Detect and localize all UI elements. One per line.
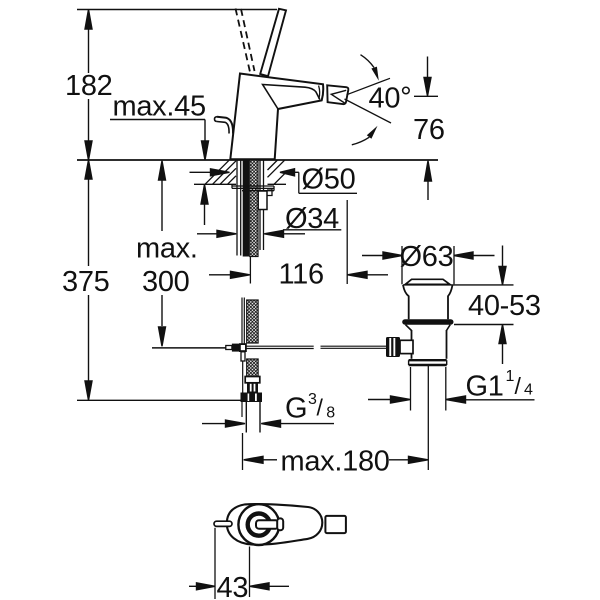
tailpipe extension lines: [410, 367, 412, 411]
svg-text:40-53: 40-53: [468, 290, 541, 322]
svg-text:1: 1: [506, 368, 515, 385]
aerator chevron: [331, 90, 346, 103]
supply hose upper section: [242, 298, 258, 344]
dimension line 182/375: [85, 10, 92, 401]
washer plates under counter: [232, 184, 274, 190]
dimension max.180: [243, 433, 429, 470]
handle tip cap: [325, 516, 346, 533]
svg-text:Ø34: Ø34: [285, 203, 339, 235]
taper below seal: [406, 325, 451, 331]
faucet body: [230, 74, 323, 160]
dimension D34: [197, 230, 341, 238]
svg-text:max.180: max.180: [281, 446, 390, 478]
mounting nut: [258, 191, 267, 210]
svg-text:375: 375: [62, 266, 110, 298]
dimension 76: [414, 57, 438, 201]
handle center bar: [256, 520, 279, 529]
svg-text:300: 300: [142, 266, 190, 298]
G3/8 threaded end: [245, 402, 247, 433]
flange top line with 40-53 upper reference: [403, 284, 514, 286]
svg-text:max.45: max.45: [113, 91, 206, 123]
svg-text:8: 8: [326, 405, 335, 422]
aerator tip: [327, 85, 348, 104]
hose collar: [245, 377, 260, 383]
hose-end reference line (375 bottom): [77, 399, 241, 401]
knurled knob: [386, 337, 400, 357]
svg-text:43: 43: [217, 572, 249, 600]
pop-up rod below body (black): [243, 160, 249, 257]
mounting surface line: [77, 159, 438, 161]
handle front view body: [227, 504, 322, 545]
joystick lever solid: [260, 9, 286, 76]
dimension max.300: [159, 161, 166, 346]
waste body: [411, 330, 413, 359]
spout end face inner line: [319, 86, 320, 99]
shank tube outer lines: [237, 160, 264, 256]
svg-text:Ø50: Ø50: [302, 164, 356, 196]
svg-text:116: 116: [279, 259, 324, 291]
dimension 43: [189, 528, 289, 599]
hose ribbed section: [247, 383, 258, 393]
waste flange: [403, 285, 453, 319]
svg-text:40°: 40°: [369, 82, 412, 115]
spout inner lines: [263, 85, 320, 110]
joystick lever alternate position (dashed): [236, 9, 251, 73]
dimension G1 1/4: [368, 396, 535, 403]
dimension D63: [362, 246, 495, 284]
break center line (116 left extension): [249, 257, 251, 284]
svg-text:182: 182: [65, 70, 113, 102]
svg-text:max.: max.: [136, 233, 198, 265]
svg-text:/: /: [317, 395, 324, 421]
handle ring outer: [238, 504, 279, 545]
dimension max.45: [110, 120, 209, 226]
dimension D50 arrows and leader: [190, 169, 358, 194]
threaded shank (crosshatch): [250, 160, 258, 257]
pop-up waste assembly: [386, 279, 514, 470]
G3/8 hex nut: [241, 393, 263, 403]
waste seal O-ring: [402, 319, 453, 325]
pop-up rod knob: [217, 117, 233, 134]
counter cross-section right slab: [268, 160, 287, 184]
svg-text:/: /: [515, 373, 522, 399]
linkage cross fitting: [226, 346, 232, 350]
40 deg upper arc arrow: [361, 55, 375, 68]
svg-text:G: G: [285, 393, 307, 425]
svg-text:76: 76: [413, 114, 445, 146]
top reference line: [77, 9, 277, 11]
waste lower ring: [409, 359, 447, 361]
waste cap: [405, 279, 450, 284]
pop-up rod pin front view: [214, 521, 232, 526]
supply hose lower section: [241, 359, 263, 433]
counter cross-section left slab: [194, 160, 236, 184]
handle ring thick: [248, 514, 270, 536]
40 deg spray lower line: [345, 99, 392, 123]
tailpipe center line: [427, 366, 429, 470]
svg-text:G1: G1: [466, 371, 504, 403]
svg-text:Ø63: Ø63: [400, 241, 454, 273]
40 deg lower arc arrow: [352, 137, 370, 145]
svg-text:4: 4: [524, 382, 533, 399]
40 deg spray upper line: [347, 78, 391, 95]
nut bracket step: [267, 189, 272, 196]
dimension 40-53: [454, 246, 514, 365]
pop-up linkage rod horizontal: [152, 346, 386, 348]
dimension G3/8: [202, 420, 334, 427]
handle bar end cap: [277, 518, 283, 530]
dimension 116: [209, 200, 388, 284]
knob stem: [400, 340, 413, 353]
